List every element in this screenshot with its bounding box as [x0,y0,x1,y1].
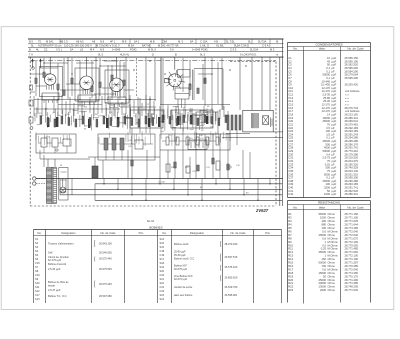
svg-text:5LO3A: 5LO3A [250,47,258,51]
svg-text:26.529.790: 26.529.790 [225,285,238,289]
svg-text:C 9 A 5: C 9 A 5 [262,44,271,48]
svg-text:160: 160 [322,257,327,261]
svg-text:9L 5: 9L 5 [200,53,206,57]
svg-text:28.771.644: 28.771.644 [345,223,359,227]
svg-text:S13: S13 [35,297,40,301]
svg-text:28.771.045: 28.771.045 [345,219,359,223]
svg-text:BOBINES: BOBINES [149,226,162,230]
svg-text:56000: 56000 [319,212,327,216]
svg-text:13000: 13000 [319,285,327,289]
svg-text:S19: S19 [160,265,165,269]
svg-text:9L 5: 9L 5 [98,53,104,57]
svg-text:1 A/L: 1 A/L [200,44,207,48]
svg-text:μμF: μμF [332,192,337,196]
svg-text:Désignation: Désignation [61,231,76,235]
svg-text:No. de Code: No. de Code [230,231,246,235]
svg-text:M.Ohms: M.Ohms [328,267,339,271]
svg-text:C18: C18 [160,249,165,253]
svg-text:S16: S16 [160,245,165,249]
svg-text:S15: S15 [160,241,165,245]
svg-text:C8A: C8A [162,40,167,44]
svg-text:0,25: 0,25 [321,247,327,251]
svg-text:R7: R7 [288,233,292,237]
svg-text:50000: 50000 [319,261,327,265]
svg-text:4: 4 [107,118,108,120]
svg-text:45000: 45000 [319,250,327,254]
svg-text:Bobine oscill. O.C.: Bobine oscill. O.C. [174,256,195,260]
svg-text:R11: R11 [288,247,293,251]
svg-text:26.546.065: 26.546.065 [99,251,112,255]
svg-text:Ohms: Ohms [328,261,336,265]
svg-text:M 5A1: M 5A1 [46,40,54,44]
svg-text:bande: bande [48,284,56,288]
svg-text:8A: 8A [190,40,193,44]
svg-text:No.: No. [37,231,41,235]
svg-text:M.Ohms: M.Ohms [328,240,339,244]
svg-text:28.970.040: 28.970.040 [225,242,238,246]
svg-text:28.772.100: 28.772.100 [345,254,359,258]
svg-text:ALTERNATIF 50 c/s: ALTERNATIF 50 c/s [38,44,62,48]
svg-text:A8 A/1: A8 A/1 [76,40,84,44]
svg-text:A1 B/L: A1 B/L [216,44,224,48]
svg-text:Prix: Prix [139,231,144,235]
svg-text:Ohms: Ohms [328,274,336,278]
svg-text:Ohms: Ohms [328,250,336,254]
svg-text:No. de Code: No. de Code [347,206,364,210]
svg-text:A 4045 POIG.: A 4045 POIG. [192,47,209,51]
svg-text:M.Ohms: M.Ohms [328,254,339,258]
svg-text:Ohms: Ohms [328,212,336,216]
svg-text:T A: T A [29,53,33,57]
svg-text:R5: R5 [288,226,292,230]
svg-text:R1: R1 [288,212,292,216]
svg-text:C4 11A: C4 11A [158,181,165,184]
svg-text:28.770.285: 28.770.285 [345,264,359,268]
svg-text:Ohms: Ohms [328,216,336,220]
svg-text:880: 880 [322,223,327,227]
svg-text:N 9: N 9 [100,47,105,51]
svg-text:28.771.285: 28.771.285 [345,281,359,285]
svg-text:C42: C42 [288,192,293,196]
svg-text:28.772.100: 28.772.100 [345,240,359,244]
svg-text:28.772.040: 28.772.040 [345,229,359,233]
svg-text:25000: 25000 [319,233,327,237]
svg-text:C19: C19 [160,253,165,257]
svg-text:M 5: M 5 [270,47,275,51]
svg-text:C12: C12 [126,105,129,107]
svg-text:M 4: M 4 [90,47,95,51]
svg-text:transfo de sortie: transfo de sortie [174,285,193,289]
svg-text:POIG.: POIG. [130,47,138,51]
svg-text:C2: C2 [44,47,48,51]
svg-text:C15: C15 [35,261,40,265]
svg-text:28.293.420: 28.293.420 [345,83,359,87]
svg-text:15000: 15000 [319,271,327,275]
svg-text:Self: Self [48,251,53,255]
svg-text:5L.7/5L: 5L.7/5L [226,40,235,44]
svg-text:26.575.440: 26.575.440 [99,257,112,261]
svg-text:V 5 L: V 5 L [56,47,63,51]
svg-text:Ohms: Ohms [328,226,336,230]
svg-text:9 LO43 POIG.: 9 LO43 POIG. [240,53,257,57]
svg-text:5 A: 5 A [170,47,174,51]
svg-text:No.: No. [293,47,298,51]
svg-text:26.843.100: 26.843.100 [99,242,112,246]
svg-text:1,25 A: 1,25 A [44,135,50,138]
svg-text:S12: S12 [35,289,40,293]
svg-text:C17: C17 [35,293,40,297]
svg-text:A 4045: A 4045 [112,47,121,51]
svg-text:Valor: Valor [319,47,326,51]
svg-text:Ohms: Ohms [328,223,336,227]
svg-text:M.Ohms: M.Ohms [328,229,339,233]
svg-text:R15: R15 [288,261,293,265]
svg-text:M.Ohms: M.Ohms [328,236,339,240]
svg-text:8A7 M: 8A7 M [142,44,150,48]
svg-text:S11: S11 [35,285,40,289]
svg-text:B: B [175,53,177,57]
svg-text:5A: 5A [70,47,73,51]
svg-text:B: B [29,47,31,51]
svg-text:Circuit de Jonction: Circuit de Jonction [48,255,70,259]
svg-text:28.771.070: 28.771.070 [345,236,359,240]
svg-text:M.B: M.B [150,40,155,44]
svg-text:4F 1: 4F 1 [110,40,116,44]
svg-text:R9: R9 [207,106,209,108]
svg-text:Ohms: Ohms [328,281,336,285]
svg-text:C 9 5: C 9 5 [230,47,237,51]
svg-text:28.775.050: 28.775.050 [345,243,359,247]
svg-text:B 5: B 5 [29,40,33,44]
svg-text:M 72A/245 V 9 10 V: M 72A/245 V 9 10 V [96,44,120,48]
svg-text:C21: C21 [160,285,165,289]
svg-text:28.771.190: 28.771.190 [345,257,359,261]
svg-text:28.286.341: 28.286.341 [345,192,359,196]
svg-text:62-672 μμF: 62-672 μμF [174,277,188,281]
svg-text:28.771.060: 28.771.060 [345,250,359,254]
svg-text:C22: C22 [160,289,165,293]
svg-text:Bobine de filtre de: Bobine de filtre de [48,280,69,284]
svg-text:S10: S10 [35,281,40,285]
svg-text:C 15A: C 15A [200,40,208,44]
svg-text:2000: 2000 [320,288,326,292]
svg-text:N 8: N 8 [100,40,105,44]
svg-text:M 5A: M 5A [128,44,134,48]
svg-text:Prix: Prix [265,231,270,235]
svg-text:26.597.080: 26.597.080 [99,294,112,298]
svg-text:0,6: 0,6 [322,229,326,233]
svg-text:4 B: 4 B [214,40,218,44]
svg-text:4B 1 5: 4B 1 5 [60,40,68,44]
svg-text:R10: R10 [288,243,293,247]
svg-text:Bobine T.F., O.C.: Bobine T.F., O.C. [48,294,67,298]
svg-text:Ohms: Ohms [328,257,336,261]
svg-text:R20: R20 [288,278,293,282]
svg-text:28.770.170: 28.770.170 [345,274,359,278]
svg-text:M.5A1 4A 777 9A: M.5A1 4A 777 9A [158,44,179,48]
svg-text:28.771.150: 28.771.150 [345,212,359,216]
svg-text:5A 1: 5A 1 [134,40,140,44]
svg-text:Ohms: Ohms [328,285,336,289]
svg-text:62-175 μμF: 62-175 μμF [48,258,62,262]
svg-text:R7: R7 [148,125,150,127]
svg-text:1000: 1000 [324,192,330,196]
svg-text:Valor: Valor [319,206,326,210]
svg-text:No.: No. [293,206,298,210]
svg-text:R21: R21 [288,281,293,285]
svg-text:M. 5: M. 5 [178,40,184,44]
svg-text:C16: C16 [35,273,40,277]
svg-text:R17: R17 [288,267,293,271]
svg-text:No.: No. [162,231,166,235]
svg-text:700: 700 [322,264,327,268]
svg-text:26.575.545: 26.575.545 [99,267,112,271]
svg-text:M 9L 5: M 9L 5 [148,47,157,51]
svg-text:Ohms: Ohms [328,278,336,282]
svg-text:C20: C20 [160,273,165,277]
svg-text:28.774.185: 28.774.185 [345,226,359,230]
svg-text:20000: 20000 [319,281,327,285]
svg-text:C4: C4 [134,115,136,117]
svg-text:28.748.295: 28.748.295 [345,285,359,289]
svg-text:5L/73A: 5L/73A [258,40,267,44]
svg-text:S23: S23 [160,293,165,297]
svg-text:28.772.040: 28.772.040 [345,267,359,271]
svg-text:0,5: 0,5 [322,243,326,247]
svg-text:Désignation: Désignation [190,231,205,235]
svg-text:RESISTANCIAS: RESISTANCIAS [318,201,340,205]
svg-text:110-125-145-200-245 V: 110-125-145-200-245 V [64,44,92,48]
svg-text:2,5-30 μμF: 2,5-30 μμF [48,267,61,271]
svg-text:Bobine d'accord: Bobine d'accord [48,262,67,266]
svg-text:28.595.290: 28.595.290 [345,76,359,80]
svg-text:S14: S14 [84,107,87,109]
svg-text:29.771.100: 29.771.100 [345,216,359,220]
svg-text:Ohms: Ohms [328,271,336,275]
svg-text:2,5-37 μμF: 2,5-37 μμF [48,288,61,292]
svg-text:R13: R13 [288,254,293,258]
svg-text:25000: 25000 [319,278,327,282]
svg-text:R9: R9 [201,130,203,132]
svg-text:28.771.290: 28.771.290 [345,278,359,282]
svg-text:R19: R19 [288,274,293,278]
svg-text:26.675.445: 26.675.445 [99,282,112,286]
svg-text:1000: 1000 [320,216,326,220]
svg-text:Ohms: Ohms [328,288,336,292]
svg-text:100: 100 [322,226,327,230]
svg-text:Ohms: Ohms [328,219,336,223]
svg-text:S21: S21 [160,277,165,281]
svg-text:28.772.040: 28.772.040 [345,233,359,237]
svg-text:Bobine oscill.: Bobine oscill. [174,242,189,246]
svg-text:R12: R12 [288,250,293,254]
svg-text:26.576.100: 26.576.100 [225,265,238,269]
svg-text:R23: R23 [288,288,293,292]
svg-text:26.890.920: 26.890.920 [225,275,238,279]
svg-text:R3: R3 [288,219,292,223]
svg-text:25-80 μμF: 25-80 μμF [174,250,186,254]
svg-text:C4: C4 [111,105,113,107]
svg-text:28.771.287: 28.771.287 [345,261,359,265]
svg-text:R9: R9 [288,240,292,244]
svg-text:allez aux bobine: allez aux bobine [174,293,193,297]
svg-text:2me Bobine M.F.: 2me Bobine M.F. [174,274,193,278]
svg-text:M.Ohms: M.Ohms [328,247,339,251]
svg-text:R18: R18 [288,271,293,275]
svg-text:62-675 μμF: 62-675 μμF [174,267,188,271]
svg-text:No. de Code: No. de Code [100,231,116,235]
svg-text:28.771.540: 28.771.540 [345,288,359,292]
svg-text:9L5A C 9A: 9L5A C 9A [234,44,247,48]
svg-text:S14: S14 [160,131,163,133]
svg-text:A8: A8 [92,40,96,44]
svg-text:26.595.901: 26.595.901 [225,293,238,297]
svg-text:S24: S24 [160,297,165,301]
svg-text:No 10: No 10 [147,219,155,223]
svg-text:28.774.450: 28.774.450 [345,271,359,275]
svg-text:R9: R9 [186,122,188,124]
svg-text:25-30 μμF: 25-30 μμF [174,253,186,257]
svg-text:Ohms: Ohms [328,264,336,268]
svg-text:400: 400 [322,219,327,223]
svg-text:M.Ohms: M.Ohms [328,243,339,247]
svg-text:Ohms: Ohms [328,233,336,237]
svg-text:4L/N 4L: 4L/N 4L [120,53,130,57]
svg-text:Bobine M.F.: Bobine M.F. [174,263,188,267]
svg-text:S17: S17 [160,257,165,261]
svg-text:50: 50 [323,274,326,278]
svg-text:0,6: 0,6 [322,267,326,271]
svg-text:26.597.515: 26.597.515 [225,255,238,259]
svg-text:R22: R22 [288,285,293,289]
svg-text:D: D [152,53,154,57]
svg-text:M.: M. [276,40,279,44]
svg-text:S18: S18 [160,261,165,265]
svg-text:M 8: M 8 [122,40,127,44]
svg-text:28.771.485: 28.771.485 [345,247,359,251]
svg-text:S22: S22 [160,281,165,285]
svg-text:R8: R8 [288,236,292,240]
svg-text:R16: R16 [288,264,293,268]
svg-text:S14: S14 [160,237,165,241]
svg-text:R6: R6 [288,229,292,233]
svg-text:0,6: 0,6 [322,236,326,240]
svg-text:S3: S3 [85,125,87,127]
svg-text:2V627: 2V627 [255,208,269,213]
svg-text:Trousse d'alimentation: Trousse d'alimentation [48,242,74,246]
svg-text:S20: S20 [160,269,165,273]
svg-text:R14: R14 [288,257,293,261]
svg-text:No. de Code: No. de Code [347,47,364,51]
svg-text:R2: R2 [288,216,292,220]
svg-text:S3: S3 [84,128,86,130]
svg-text:R4: R4 [288,223,292,227]
